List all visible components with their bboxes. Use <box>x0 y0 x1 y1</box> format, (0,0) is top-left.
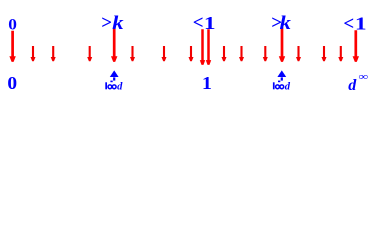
svg-text:0: 0 <box>8 15 17 33</box>
svg-text:<: < <box>343 13 354 34</box>
svg-text:1: 1 <box>202 74 212 92</box>
svg-text:d: d <box>348 77 357 92</box>
svg-text:k: k <box>112 14 124 34</box>
svg-text:1: 1 <box>204 12 216 33</box>
svg-text:∞: ∞ <box>359 71 369 83</box>
svg-text:>: > <box>101 13 112 34</box>
svg-text:<: < <box>193 13 204 34</box>
svg-text:k: k <box>280 14 292 34</box>
svg-text:0: 0 <box>7 73 17 92</box>
svg-text:d: d <box>285 81 291 92</box>
svg-text:1: 1 <box>355 13 367 34</box>
svg-text:d: d <box>117 81 123 92</box>
